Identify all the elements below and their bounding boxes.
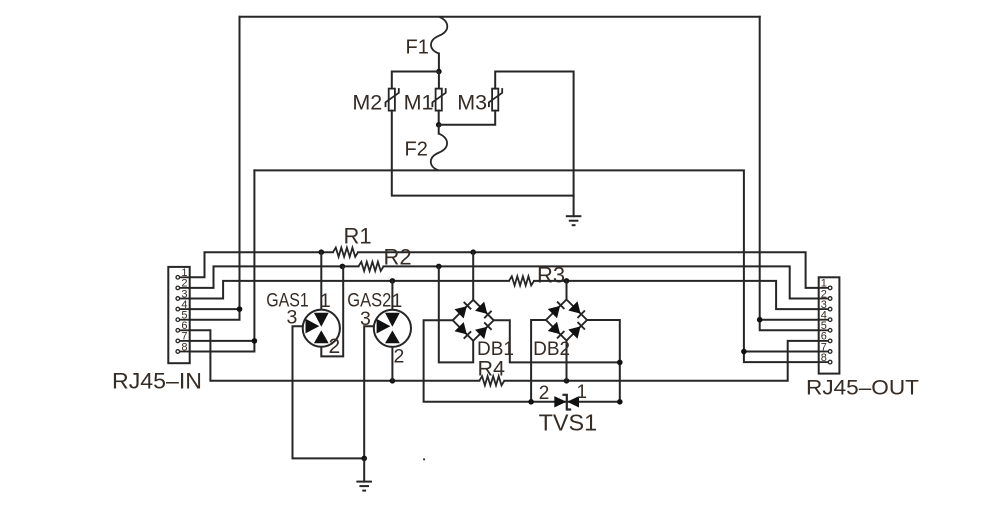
wire DB2 right leg — [587, 320, 620, 402]
wire GAS1 pin3 — [293, 326, 365, 458]
wire DB1 left to TVS bus — [424, 320, 531, 402]
svg-text:M1: M1 — [404, 91, 434, 115]
junction pin7-OUT — [741, 349, 747, 355]
wire F1 to junction — [438, 54, 440, 72]
wire R4 to RJ45-OUT pin6 — [504, 341, 818, 381]
wire M2 bottom to ground rail — [392, 111, 574, 196]
junction F1/M1/M2 — [436, 69, 442, 75]
junction pin4-IN — [237, 306, 243, 312]
wire DB1 bottom leg — [439, 266, 473, 362]
svg-text:1: 1 — [577, 382, 588, 403]
svg-text:M3: M3 — [457, 91, 487, 115]
svg-text:DB1: DB1 — [477, 339, 514, 360]
junction GAS2 pin1 on R3 bus — [390, 278, 396, 284]
svg-text:F1: F1 — [406, 36, 429, 58]
wire DB2 bottom leg — [566, 341, 568, 381]
ground (top) — [566, 215, 582, 217]
svg-text:3: 3 — [287, 307, 298, 329]
wire F2 top — [438, 125, 440, 134]
junction DB2 bottom on R4 bus — [564, 378, 570, 384]
junction DB legs meet y362 — [617, 360, 623, 366]
resistor R4 — [479, 376, 504, 385]
junction GAS2 pin2 on R4 bus — [390, 378, 396, 384]
svg-text:1: 1 — [392, 290, 403, 312]
wire RJ45-IN pin 7 — [190, 340, 255, 342]
wire M3 bottom — [439, 111, 496, 125]
svg-text:8: 8 — [821, 352, 827, 364]
svg-text:8: 8 — [181, 341, 187, 353]
svg-text:M2: M2 — [352, 91, 382, 115]
junction GAS grounds — [361, 456, 367, 462]
junction DB1 left-leg on R2 bus — [436, 264, 442, 270]
diode bridge DB2 — [546, 300, 587, 341]
svg-text:2: 2 — [394, 345, 405, 367]
wire RJ45-OUT pin 7 — [744, 351, 819, 353]
wire M3 top to ground rail — [495, 72, 573, 217]
resistor R1 — [333, 248, 358, 257]
junction GAS1 pin1 on R1 bus — [319, 249, 325, 255]
svg-text:2: 2 — [329, 335, 341, 358]
junction M1/M3 bottom — [436, 122, 442, 128]
wire junction to M2 top — [392, 72, 439, 89]
wire left bus down to RJ45-IN pins 4/5 — [190, 17, 240, 320]
junction TVS left — [528, 399, 534, 405]
junction DB2 top on R3 bus — [564, 278, 570, 284]
svg-text:RJ45–OUT: RJ45–OUT — [806, 375, 919, 399]
wire TVS bus — [531, 401, 620, 403]
svg-text:DB2: DB2 — [533, 339, 570, 360]
svg-text:3: 3 — [360, 308, 371, 330]
wire top bus — [240, 16, 760, 18]
wire RJ45-OUT pin 4 — [760, 319, 819, 321]
wire RJ45-IN pin1 to R1 — [190, 252, 333, 277]
resistor R2 — [359, 262, 384, 271]
wire RJ45-IN pin2 to R2 — [190, 266, 359, 288]
wire DB2 top riser — [566, 281, 568, 300]
wire DB1 top riser — [472, 252, 474, 300]
wire left drop to RJ45-IN pins 7/8 — [190, 170, 255, 351]
svg-text:F2: F2 — [405, 138, 428, 160]
wire DB2 left leg — [531, 320, 546, 402]
gas discharge tube GAS2 — [374, 310, 411, 347]
junction pin7-IN — [252, 338, 258, 344]
resistor R3 — [509, 276, 534, 285]
wire M1 top — [438, 72, 440, 89]
gas discharge tube GAS1 — [303, 310, 340, 347]
varistor M2 — [389, 89, 395, 111]
junction GAS1 pin2 on R2 bus — [340, 264, 346, 270]
wire GAS2 pin2 — [391, 347, 393, 381]
varistor M3 — [492, 89, 498, 111]
fuse F2 — [431, 134, 447, 171]
wire GAS2 pin3 — [364, 326, 377, 458]
fuse F1 — [431, 17, 447, 54]
wire R3 to RJ45-OUT pin3 — [534, 281, 819, 309]
wire GAS1 pin2 — [321, 266, 343, 356]
wire DB1 right leg — [494, 320, 620, 362]
wire M1 bottom — [438, 111, 440, 125]
TVS diode TVS1 — [554, 396, 566, 407]
wire RJ45-IN pin 4 — [190, 308, 240, 310]
varistor M1 — [436, 89, 442, 111]
wire RJ45-IN pin6 to R4 — [190, 330, 480, 381]
svg-text:TVS1: TVS1 — [539, 410, 598, 436]
junction DB1 top on R1 bus — [470, 249, 476, 255]
wire GAS1 pin1 riser — [320, 252, 322, 309]
svg-text:R3: R3 — [537, 263, 565, 288]
wire right bus down to RJ45-OUT pins 4/5 — [760, 17, 819, 331]
connector RJ45-IN — [168, 267, 189, 363]
wire RJ45-IN pin3 to R3 — [190, 281, 509, 299]
svg-text:RJ45–IN: RJ45–IN — [112, 369, 202, 394]
wire R1 to RJ45-OUT pin1 — [358, 252, 819, 288]
stray dot — [423, 458, 425, 460]
ground (bottom) — [356, 481, 372, 483]
wire long bus y170 to RJ45-OUT pins 7/8 — [254, 170, 818, 362]
connector RJ45-OUT — [819, 277, 840, 373]
svg-text:2: 2 — [539, 383, 550, 404]
svg-text:1: 1 — [320, 290, 331, 312]
junction pin4-OUT — [757, 317, 763, 323]
junction TVS right — [617, 399, 623, 405]
wire to ground (bottom) — [363, 458, 365, 481]
svg-text:R1: R1 — [344, 224, 372, 249]
diode bridge DB1 — [453, 300, 494, 341]
wire GAS2 pin1 riser — [391, 281, 393, 310]
wire R2 to RJ45-OUT pin2 — [384, 266, 819, 298]
